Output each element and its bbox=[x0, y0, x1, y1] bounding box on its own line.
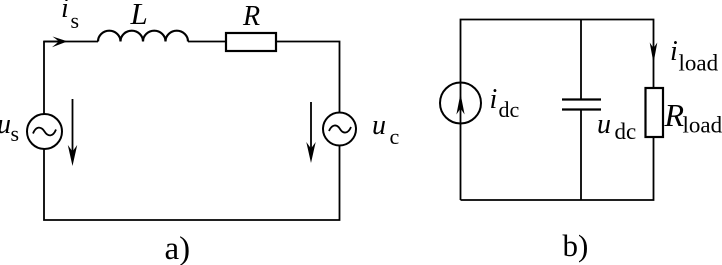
svg-text:load: load bbox=[679, 51, 719, 76]
svg-text:R: R bbox=[242, 1, 260, 32]
source u_s circle bbox=[27, 114, 62, 149]
arrow u_s direction line bbox=[72, 99, 74, 160]
wire circuit b outer rectangle top bbox=[461, 20, 654, 201]
arrow i_dc head bbox=[456, 94, 464, 115]
wire top-left segment circuit a bbox=[44, 42, 98, 115]
source i_dc circle bbox=[440, 83, 481, 124]
svg-text:u: u bbox=[372, 110, 386, 141]
source u_c circle bbox=[323, 113, 356, 146]
arrow i_s line bbox=[44, 41, 60, 43]
svg-text:load: load bbox=[683, 113, 722, 138]
svg-text:dc: dc bbox=[615, 119, 637, 144]
svg-text:L: L bbox=[130, 0, 148, 31]
wire capacitor branch lower bbox=[580, 110, 582, 200]
resistor R_load bbox=[646, 88, 664, 137]
svg-text:b): b) bbox=[563, 228, 589, 263]
capacitor plate lower bbox=[562, 108, 601, 110]
svg-text:i: i bbox=[61, 0, 69, 24]
source u_s sine bbox=[33, 128, 56, 136]
svg-text:u: u bbox=[0, 109, 11, 140]
svg-text:s: s bbox=[11, 121, 20, 146]
svg-text:dc: dc bbox=[499, 97, 520, 122]
svg-text:u: u bbox=[597, 109, 611, 140]
arrow u_s head bbox=[68, 145, 77, 166]
wire left-bottom segment circuit a bbox=[44, 146, 340, 221]
wire circuit b bottom bbox=[461, 137, 654, 200]
arrow i_s head bbox=[52, 37, 68, 48]
capacitor plate upper bbox=[562, 98, 601, 100]
arrow u_c head bbox=[306, 142, 315, 163]
svg-text:c: c bbox=[390, 124, 400, 149]
arrow i_load head bbox=[650, 43, 658, 64]
inductor L bbox=[98, 31, 188, 42]
wire inductor-to-resistor bbox=[188, 41, 226, 43]
wire capacitor branch upper bbox=[580, 20, 582, 100]
source u_c sine bbox=[329, 125, 351, 132]
svg-text:i: i bbox=[490, 84, 498, 115]
svg-text:i: i bbox=[670, 36, 678, 67]
svg-text:R: R bbox=[664, 97, 685, 133]
arrow u_c direction line bbox=[310, 102, 312, 157]
svg-text:a): a) bbox=[165, 231, 191, 265]
svg-text:s: s bbox=[71, 8, 80, 33]
resistor R bbox=[226, 33, 276, 51]
wire resistor-to-corner bbox=[276, 42, 340, 113]
